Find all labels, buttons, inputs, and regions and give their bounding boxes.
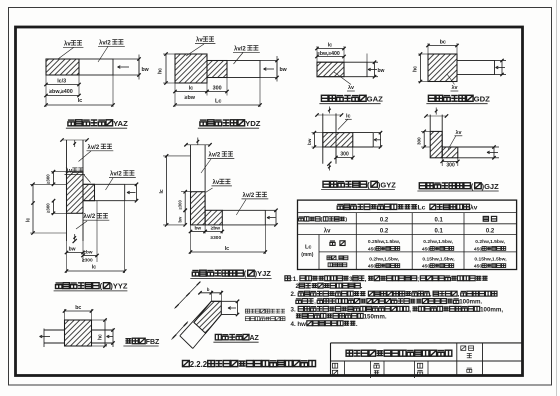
D5 label lv [72, 167, 77, 169]
svg-text:)GYZ: )GYZ [378, 180, 396, 189]
svg-text:GDZ: GDZ [474, 95, 491, 104]
svg-text:0.2: 0.2 [380, 217, 389, 223]
D8 title GJZ [419, 183, 426, 189]
D1 YAZ wall rect [46, 59, 113, 75]
svg-text:lc: lc [346, 113, 351, 119]
svg-text:≥300: ≥300 [46, 174, 51, 184]
D10 diagonal wall lines [180, 301, 212, 336]
D8 300 dim below [441, 158, 443, 166]
svg-text:λv: λv [456, 130, 462, 136]
sheet no cell [461, 346, 466, 351]
svg-text:0.2: 0.2 [486, 228, 495, 234]
svg-text:≥300: ≥300 [82, 257, 93, 263]
svg-text:lc: lc [328, 42, 333, 48]
D6 left inner dims [181, 191, 191, 193]
svg-text:.: . [356, 321, 358, 328]
svg-text:≥bw,≥400: ≥bw,≥400 [49, 89, 73, 95]
svg-text:lc: lc [159, 189, 165, 193]
svg-text:λv/2: λv/2 [209, 152, 221, 158]
svg-text:bw: bw [280, 67, 288, 73]
svg-text:λv: λv [470, 204, 478, 212]
D6 left outer dim lc [163, 155, 191, 157]
D6 hatch vertical part [191, 192, 206, 225]
D5 dims below [66, 241, 68, 273]
svg-text:λv/2: λv/2 [243, 193, 255, 199]
D6 vertical wall [190, 145, 192, 192]
D5 left outer dim [30, 183, 67, 185]
svg-text:;: ; [417, 276, 419, 283]
svg-text:≥bw: ≥bw [185, 95, 196, 101]
D5 label lv/2 top [79, 151, 92, 162]
figure caption [183, 361, 190, 367]
table v-lines [355, 213, 357, 270]
svg-text:hc: hc [97, 334, 103, 340]
svg-text:0.15hw,1.5bw,: 0.15hw,1.5bw, [474, 257, 507, 263]
svg-text:.: . [361, 283, 363, 290]
D5 left inner dims [51, 171, 67, 173]
D6 hatch arm [205, 210, 222, 225]
table header [337, 203, 343, 205]
D1 label lv/2 [98, 47, 108, 63]
svg-text:λv: λv [324, 228, 331, 234]
svg-text:bw: bw [69, 246, 76, 252]
svg-text:2.: 2. [291, 291, 296, 298]
svg-text:lc/3: lc/3 [57, 79, 66, 85]
D8 hatch vertical part [430, 131, 442, 157]
cell divider protrusions [370, 376, 372, 379]
svg-text:450: 450 [474, 264, 482, 270]
svg-text:Lc: Lc [418, 205, 426, 212]
table frame [298, 200, 517, 269]
title block main text [346, 350, 353, 356]
D7 wall top break + dim [317, 114, 342, 116]
D10 lower diagonal dim [172, 322, 189, 340]
svg-text:2: 2 [296, 283, 300, 290]
svg-text:3.: 3. [291, 306, 296, 313]
svg-text:2.2.2: 2.2.2 [190, 360, 208, 369]
D6 wall top break [186, 144, 210, 146]
D3 wall rect [317, 62, 367, 76]
svg-text:≥300: ≥300 [46, 203, 51, 213]
D3 leader lv [334, 72, 351, 85]
D1 hatched core [46, 59, 79, 75]
D6 label lv [206, 188, 213, 192]
D8 vertical wall [429, 115, 431, 132]
svg-text:YAZ: YAZ [113, 119, 128, 128]
svg-text:λv: λv [64, 41, 71, 47]
svg-text:)YJZ: )YJZ [255, 269, 272, 278]
svg-text:bw: bw [195, 226, 202, 232]
svg-text:,: , [409, 306, 411, 313]
svg-text:0.2hw,1.5bw,: 0.2hw,1.5bw, [369, 257, 399, 263]
svg-text:): ) [345, 217, 347, 223]
svg-text:,: , [430, 291, 432, 298]
svg-text:λv/2: λv/2 [99, 40, 111, 46]
D9 hc dim right [92, 319, 108, 321]
D10 upper diagonal dim [175, 282, 201, 309]
D2 hc dim left [163, 53, 175, 55]
svg-text:FBZ: FBZ [146, 339, 160, 346]
svg-text:450: 450 [368, 246, 376, 252]
D7 lc leader [338, 119, 348, 130]
svg-text:4. hw: 4. hw [291, 321, 307, 328]
svg-text:lc: lc [225, 246, 230, 252]
D2 dims below [174, 83, 176, 107]
svg-text:≥bw: ≥bw [83, 250, 93, 256]
D9 column block [65, 320, 92, 346]
svg-text:λv: λv [196, 38, 203, 44]
svg-text:450: 450 [422, 246, 430, 252]
D7 vertical wall [322, 113, 324, 163]
svg-text:bc: bc [440, 39, 446, 45]
svg-text:≥300: ≥300 [211, 235, 222, 241]
svg-text:450: 450 [422, 264, 430, 270]
svg-text:450: 450 [368, 264, 376, 270]
svg-text:3: 3 [349, 276, 353, 283]
D2 wall continuation [260, 60, 277, 62]
svg-text:300: 300 [446, 162, 455, 168]
D8 horizontal wall [458, 146, 494, 148]
D8 hatch arm [442, 147, 458, 158]
svg-text:hc: hc [413, 66, 419, 72]
D7 horizontal wall [353, 132, 373, 134]
svg-text:100mm,: 100mm, [480, 306, 503, 313]
svg-text:bw: bw [177, 216, 182, 223]
D10 top dim [210, 291, 212, 302]
svg-text:(mm): (mm) [301, 252, 314, 258]
svg-text:hc: hc [158, 68, 164, 74]
D1 title YAZ [68, 119, 75, 121]
svg-text:lc: lc [78, 98, 83, 104]
svg-text:0.15hw,1.5bw,: 0.15hw,1.5bw, [422, 257, 455, 263]
title block small cells [344, 361, 346, 376]
svg-text:300: 300 [416, 137, 421, 145]
svg-text:lc: lc [92, 265, 97, 271]
D1 bw dim [138, 59, 140, 75]
svg-text:GAZ: GAZ [367, 95, 384, 104]
D2 YDZ end column block [175, 54, 207, 83]
D4 hc dim left [418, 53, 428, 55]
svg-text:100mm.: 100mm. [459, 299, 482, 306]
table row5 sub-label [327, 256, 331, 260]
svg-text:λv/2: λv/2 [234, 46, 246, 52]
D7 bw dim left [312, 132, 323, 134]
D1 label lv [58, 48, 74, 60]
D5 title YYZ [56, 282, 63, 284]
D4 wall right [457, 61, 495, 75]
D10 title AZ [215, 334, 221, 340]
svg-text:300: 300 [213, 85, 222, 91]
svg-text:0.2: 0.2 [380, 228, 389, 234]
D10 hatched corner [194, 301, 221, 333]
svg-text:,: , [458, 291, 460, 298]
D2 label lv [186, 44, 204, 56]
svg-text:Lc: Lc [305, 245, 312, 251]
D8 leader lv [448, 136, 456, 150]
D6 label lv/2 right [236, 200, 246, 216]
svg-text:≥300: ≥300 [177, 200, 182, 210]
svg-text:0.2hw,1.5bw,: 0.2hw,1.5bw, [423, 239, 453, 245]
svg-text:λv/2: λv/2 [110, 171, 122, 177]
D3 wall continuation [367, 61, 378, 63]
svg-text:450: 450 [474, 246, 482, 252]
svg-text:YDZ: YDZ [245, 119, 261, 128]
svg-text:b: b [207, 287, 210, 292]
D6 horizontal wall [222, 209, 265, 211]
D3 hatched core [317, 62, 344, 76]
D10 side note [245, 309, 249, 313]
D7 title GYZ [323, 181, 330, 187]
svg-text:≥bw: ≥bw [211, 226, 221, 232]
D7 wall bottom break [328, 164, 330, 171]
D1 wall continuation [113, 58, 139, 60]
svg-text:)GJZ: )GJZ [482, 182, 500, 191]
svg-text:≥bw,≥400: ≥bw,≥400 [317, 51, 340, 57]
D2 title YDZ [200, 119, 207, 121]
svg-text:bw: bw [307, 138, 312, 145]
svg-text:0.25hw,1.5bw,: 0.25hw,1.5bw, [368, 239, 401, 245]
svg-text:lc: lc [189, 85, 194, 91]
D9 bc dim above [64, 309, 66, 320]
table h-lines [298, 212, 517, 214]
svg-text:bc: bc [75, 305, 81, 311]
D2 hatched wall stub [207, 61, 227, 78]
D3 GAZ dims above [316, 46, 318, 62]
D5 hatched arm [83, 184, 95, 200]
title block frame [330, 343, 332, 376]
D4 title GDZ [428, 95, 435, 101]
svg-text:λv: λv [213, 180, 220, 186]
svg-text:λv/2: λv/2 [84, 214, 96, 220]
D10 horizontal wall [211, 300, 236, 302]
D8 wall top break + dim [426, 115, 447, 117]
D6 dims below [190, 225, 192, 254]
D9 left wall [44, 329, 65, 331]
D1 dims below [45, 75, 47, 107]
svg-text:0.1: 0.1 [435, 217, 444, 223]
D5 wall top break [62, 139, 87, 141]
D2 wall rect [227, 61, 260, 78]
D9 right wall [92, 329, 114, 331]
cell labels [332, 363, 337, 368]
D9 title FBZ [126, 338, 128, 344]
D5 hatched core [67, 172, 84, 214]
table row2 [299, 216, 304, 218]
svg-text:λv: λv [452, 85, 458, 91]
notes [285, 276, 290, 281]
inner border frame [16, 27, 523, 376]
D3 title GAZ [321, 95, 328, 101]
D4 column block [428, 54, 457, 82]
table row4 sub-label [330, 240, 335, 242]
svg-text:λv: λv [348, 85, 354, 91]
D6 title YJZ [192, 270, 198, 272]
D7 hatched core [323, 133, 353, 147]
svg-text:)YYZ: )YYZ [110, 282, 128, 291]
D5 horizontal wall [83, 183, 125, 185]
D6 label lv/2 top [201, 159, 211, 173]
svg-text:λv: λv [66, 169, 73, 175]
D4 GDZ bc dim above [427, 43, 429, 54]
svg-text:λv/2: λv/2 [88, 145, 100, 151]
svg-text:,: , [365, 276, 367, 283]
D8 300 dim left [421, 130, 430, 132]
svg-text:0.2hw,1.5bw,: 0.2hw,1.5bw, [475, 239, 505, 245]
D5 label lv/2 bottom [76, 221, 87, 229]
svg-text:bw: bw [142, 67, 150, 73]
svg-text:AZ: AZ [250, 335, 260, 342]
D5 wall bottom break [74, 234, 76, 241]
D2 label lv/2 [234, 53, 244, 65]
D4 leader lv [447, 74, 455, 85]
svg-text:,: , [314, 299, 316, 306]
svg-text:lc: lc [26, 218, 32, 222]
svg-text:300: 300 [340, 151, 349, 157]
scan artifact line right edge [556, 0, 558, 396]
svg-text:150mm.: 150mm. [364, 313, 387, 320]
D2 bw dim [276, 61, 278, 78]
svg-text:0.1: 0.1 [435, 228, 444, 234]
D5 label lv/2 right [106, 178, 114, 190]
D5 vertical wall [66, 140, 68, 241]
svg-text:bw: bw [378, 68, 385, 74]
svg-text::1.: :1. [291, 276, 299, 283]
D7 300 dim below [335, 147, 337, 160]
svg-text:(: ( [321, 217, 323, 223]
svg-text:Lc: Lc [215, 99, 222, 105]
